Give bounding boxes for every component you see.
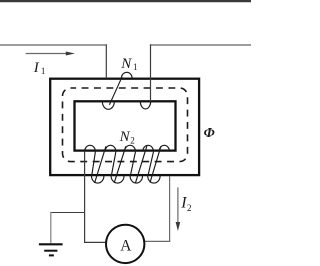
wire: N2 right lead down to ammeter xyxy=(169,176,171,242)
current arrow I2 xyxy=(177,187,179,224)
flux dashed path xyxy=(63,88,188,162)
svg-text:Φ: Φ xyxy=(204,126,215,141)
svg-text:2: 2 xyxy=(187,203,192,213)
svg-text:N: N xyxy=(120,56,132,72)
svg-text:2: 2 xyxy=(130,136,135,146)
ground xyxy=(39,244,63,255)
svg-text:N: N xyxy=(119,129,131,145)
winding N1 xyxy=(102,72,150,109)
core inner window rectangle xyxy=(75,101,176,150)
top border line xyxy=(0,0,251,2)
svg-text:1: 1 xyxy=(133,62,138,72)
ammeter A xyxy=(106,225,144,263)
svg-text:1: 1 xyxy=(41,66,46,76)
current arrow I1 xyxy=(26,53,68,55)
wire: N2 left lead down to ammeter xyxy=(84,152,86,243)
core outer rectangle xyxy=(50,79,199,175)
winding N2 xyxy=(85,145,170,183)
wire: ground branch xyxy=(50,212,84,214)
wire: right input with corner, winding N1 right lead xyxy=(150,44,251,46)
svg-text:I: I xyxy=(33,60,40,76)
svg-text:A: A xyxy=(120,238,132,255)
wire: left input with corner, winding N1 left lead xyxy=(0,44,107,46)
